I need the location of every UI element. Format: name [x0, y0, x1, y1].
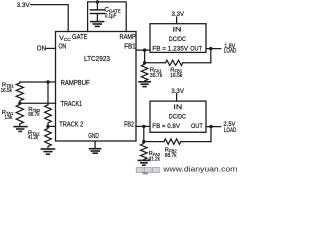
svg-text:LTC2923: LTC2923	[84, 56, 110, 63]
svg-text:GND: GND	[88, 133, 99, 140]
svg-text:www.dianyuan.com: www.dianyuan.com	[162, 165, 237, 174]
svg-text:FB2: FB2	[124, 121, 134, 128]
svg-text:41.2k: 41.2k	[28, 135, 38, 141]
svg-text:0.1µF: 0.1µF	[105, 12, 117, 19]
svg-text:3.3V: 3.3V	[171, 88, 184, 95]
svg-text:DC/DC: DC/DC	[169, 113, 186, 120]
svg-text:FB1: FB1	[124, 44, 136, 51]
svg-text:OUT: OUT	[190, 45, 202, 52]
svg-text:IN: IN	[173, 27, 182, 34]
svg-text:RAMP: RAMP	[120, 34, 137, 41]
svg-text:IN: IN	[173, 104, 182, 111]
svg-text:16.5k: 16.5k	[170, 73, 182, 79]
svg-text:16.5k: 16.5k	[1, 88, 12, 94]
svg-text:TRACK1: TRACK1	[61, 101, 83, 108]
svg-text:3.3V: 3.3V	[172, 11, 185, 18]
svg-text:ON: ON	[37, 45, 46, 52]
svg-text:3.3V: 3.3V	[17, 2, 30, 9]
svg-text:ON: ON	[59, 44, 67, 51]
svg-text:88.7k: 88.7k	[28, 112, 39, 118]
svg-text:LOAD: LOAD	[224, 49, 237, 55]
svg-text:OUT: OUT	[191, 123, 203, 130]
svg-text:RAMPBUF: RAMPBUF	[61, 80, 90, 87]
svg-text:GATE: GATE	[72, 34, 88, 41]
svg-text:88.7k: 88.7k	[165, 153, 177, 159]
svg-text:TRACK 2: TRACK 2	[59, 122, 83, 129]
svg-text:FB = 0.8V: FB = 0.8V	[152, 123, 180, 130]
svg-text:41.2k: 41.2k	[149, 157, 160, 163]
svg-text:13k: 13k	[4, 115, 12, 121]
svg-text:FB = 1.235V: FB = 1.235V	[152, 45, 188, 52]
svg-text:DC/DC: DC/DC	[169, 36, 186, 43]
svg-text:LOAD: LOAD	[224, 128, 237, 134]
svg-text:35.7k: 35.7k	[150, 73, 162, 79]
